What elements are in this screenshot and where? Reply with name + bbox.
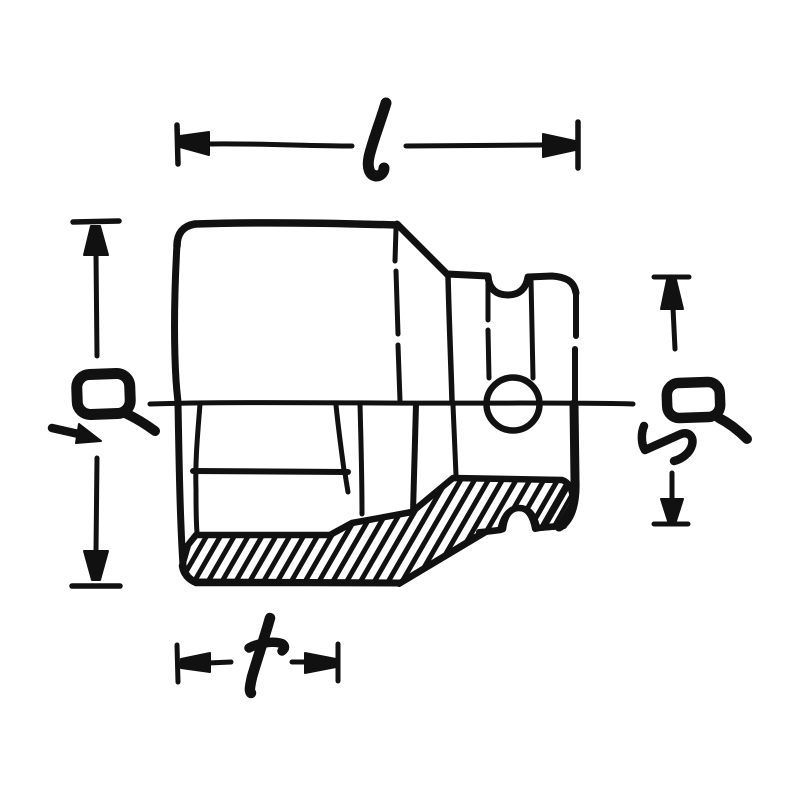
dim d1 tick bottom	[72, 583, 120, 589]
hex front edge	[395, 229, 400, 401]
drive top edge with groove	[447, 274, 576, 295]
dim l line left	[207, 144, 352, 146]
dim t line left	[208, 662, 231, 663]
bottom edge	[196, 582, 399, 583]
dim d2 line top	[673, 308, 675, 349]
dim d1 arrow bottom	[84, 551, 108, 580]
body top edge	[177, 223, 397, 246]
groove right edge	[531, 279, 533, 378]
label d2 subscript	[642, 426, 693, 461]
label d1 stem	[125, 413, 155, 431]
dim t tick left	[177, 645, 178, 682]
hex cavity end tip	[345, 473, 348, 492]
dim d2 tick top	[654, 275, 689, 280]
dim t arrow right	[305, 653, 336, 673]
hex cavity end edge	[336, 405, 344, 470]
label d2 stem	[719, 418, 747, 439]
dim t tick right	[336, 644, 341, 681]
inner edge x418	[413, 404, 416, 512]
drive shoulder edge lower	[453, 405, 456, 475]
dim l tick right	[575, 122, 581, 168]
inner hex wall left	[196, 404, 200, 533]
dim d1 line top	[96, 254, 97, 356]
inner hex mid edge	[193, 471, 348, 472]
right edge lower	[559, 404, 575, 527]
dim d1 tick top	[73, 221, 119, 222]
centerline	[150, 403, 633, 404]
dim d2 line bottom	[670, 473, 675, 500]
hatch reinforcement corner	[533, 482, 572, 526]
label d2 bowl	[666, 382, 720, 419]
label d1 bowl	[76, 373, 130, 415]
dim d2 arrow bottom	[661, 499, 683, 521]
dim t line right	[292, 660, 304, 665]
dim d2 arrow top	[661, 280, 683, 309]
left edge	[174, 244, 196, 582]
label t	[250, 618, 270, 693]
dim l line right	[406, 145, 542, 146]
dim d1 arrow top	[84, 226, 108, 255]
dim d2 tick bottom	[654, 522, 688, 527]
drive shoulder edge	[448, 275, 452, 401]
dim l arrow right	[543, 134, 575, 157]
dim t arrow left	[181, 653, 210, 672]
dim d1 line bottom	[96, 458, 97, 551]
groove left edge	[488, 281, 489, 378]
label d1 subscript	[52, 428, 83, 435]
ball hole circle	[487, 378, 540, 431]
drive bottom edge with snap notch	[479, 508, 564, 532]
dim l arrow left	[180, 132, 209, 155]
hatched section band	[182, 478, 573, 583]
bottom transition diagonal	[399, 532, 486, 584]
dim l tick left	[177, 125, 178, 164]
right edge upper	[575, 291, 576, 400]
label l	[368, 103, 386, 176]
inner edge x361	[360, 404, 362, 514]
chamfer edge	[397, 224, 447, 274]
